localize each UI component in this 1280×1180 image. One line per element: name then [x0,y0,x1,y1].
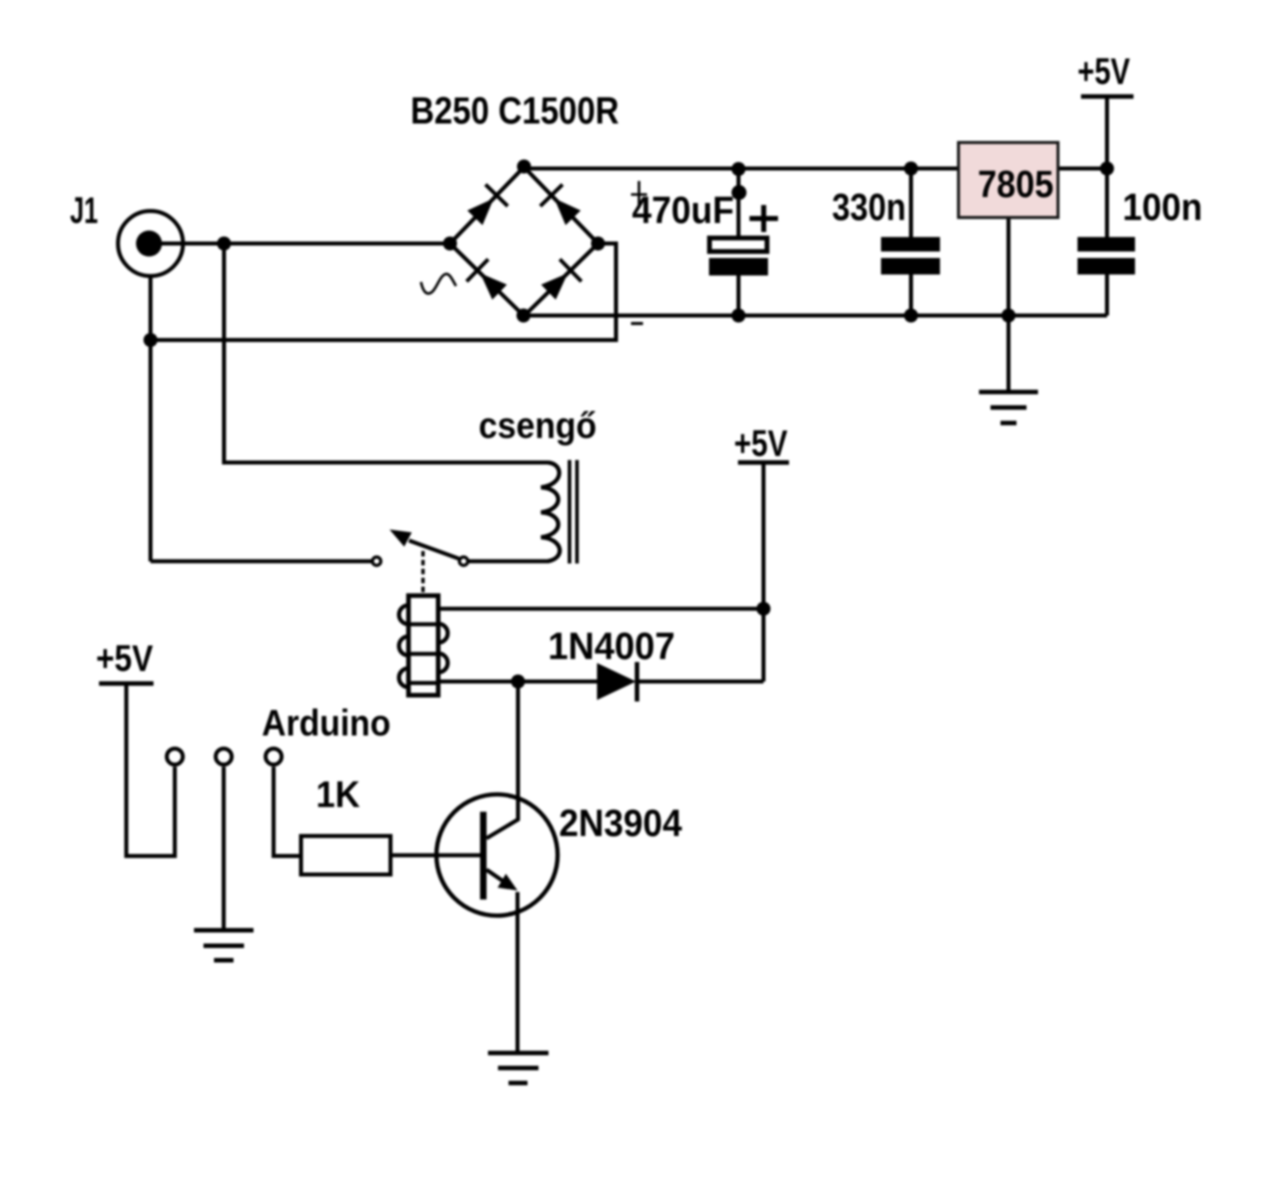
inductor core bars [570,460,578,564]
capacitor C3 100n bottom plate [1078,258,1136,275]
wire J1 tip to bridge left vertex [151,242,451,246]
wire collector of Q1 [487,682,519,839]
bridge minus output mark [631,322,643,325]
diode D-BR cathode bar [560,259,582,281]
svg-text:+5V: +5V [734,423,788,464]
wire capacitor C2 top lead [909,169,913,238]
capacitor C1 470uF negative plate [709,258,768,276]
bridge plus output mark [631,181,647,208]
power +5V middle [734,423,789,464]
diode D-BL arrow [480,273,507,299]
svg-text:1N4007: 1N4007 [548,626,675,668]
diode D-BR arrow [541,273,568,299]
svg-text:330n: 330n [832,187,906,229]
connector J1 barrel jack [118,211,184,276]
node C1 bottom junction [732,309,746,323]
svg-text:B250 C1500R: B250 C1500R [411,91,620,133]
diode D-TR cathode bar [540,185,562,207]
AC input sine mark [421,274,456,294]
wire top +DC rail [524,167,1107,171]
wire coil bottom to switch contact [469,559,550,563]
wire J1 sleeve down left side [149,278,153,562]
capacitor C3 100n top plate [1078,237,1136,252]
svg-text:J1: J1 [70,190,98,231]
wire relay contact to diode anode [438,680,598,684]
node J1 sleeve branch [144,333,158,347]
wire pin 2 to ground [222,767,226,931]
diode D1 1N4007 arrow [597,663,636,700]
diode D-TL arrow [467,198,493,225]
switch left contact [372,557,380,565]
inductor coil csengo [541,463,560,562]
wire capacitor C3 bottom lead [1105,274,1109,316]
ground below emitter [488,1053,549,1083]
node C1 rail junction [732,162,746,176]
svg-text:7805: 7805 [978,164,1054,206]
svg-text:470uF: 470uF [632,190,734,232]
node J1 branch [217,237,231,251]
switch blade [409,541,459,559]
wire bottom 0V rail [524,314,1108,318]
switch blade arrow [390,530,412,547]
svg-text:+5V: +5V [96,638,153,679]
svg-text:csengő: csengő [479,405,597,446]
ground below 7805 [979,392,1038,423]
pin 2 connector [216,749,232,765]
bridge rectifier B1 diamond [450,167,598,316]
svg-text:100n: 100n [1123,187,1203,229]
node +5V rail junction [1100,162,1114,176]
node 7805 gnd junction [1002,309,1016,323]
wire base of Q1 [391,853,481,857]
wire emitter of Q1 to ground [516,892,520,1052]
power +5V top right [1078,51,1134,97]
regulator U1 7805 [959,143,1059,218]
node C2 top junction [904,162,918,176]
node relay +5V junction [757,602,771,616]
diode D1 cathode bar [635,662,640,702]
ground below pin 2 [194,930,254,960]
capacitor C1 470uF positive plate [710,238,768,252]
resistor R1 1K [301,836,391,875]
diode D-TL cathode bar [486,185,508,207]
wire capacitor C1 bottom lead [737,273,741,316]
wire pin 3 to resistor R1 [274,767,301,856]
pin 1 connector [167,749,183,765]
diode D-TR arrow [554,198,580,225]
wire bridge right vertex loop to J1 sleeve [151,244,617,341]
wire left rail to switch contact [151,559,372,563]
switch right contact [459,557,467,565]
node C2 bottom junction [904,309,918,323]
node bridge left vertex [443,237,457,251]
wire +5V mid down to diode cathode [762,463,766,682]
transistor Q1 2N3904 [436,794,557,915]
svg-text:1K: 1K [316,774,360,815]
wire 7805 ground pin [1007,218,1011,393]
node collector junction [511,675,525,689]
wire relay contact to +5V [438,607,764,611]
wire +5V left to pin 1 [126,684,175,857]
wire node A to coil top [224,244,548,463]
svg-text:+5V: +5V [1078,51,1131,92]
svg-text:2N3904: 2N3904 [559,803,682,845]
node C1 top lead junction [732,185,747,200]
node bridge right vertex [591,237,605,251]
capacitor C2 330n bottom plate [881,258,940,275]
capacitor C2 330n top plate [881,237,940,252]
svg-text:Arduino: Arduino [262,703,391,744]
wire capacitor C2 bottom lead [909,274,913,316]
node bridge bottom vertex [517,309,531,323]
capacitor C1 polarity plus [750,205,779,232]
wire +5V to capacitor C3 top lead [1105,97,1109,238]
power +5V left [96,638,154,684]
wire diode cathode to +5V line [637,680,764,684]
node bridge top vertex [517,160,531,174]
relay K1 coil block [399,596,448,696]
diode D-BL cathode bar [467,259,489,281]
switch actuator dashed link [421,551,424,595]
pin 3 connector [266,749,282,765]
wire capacitor C1 top lead [737,169,741,238]
